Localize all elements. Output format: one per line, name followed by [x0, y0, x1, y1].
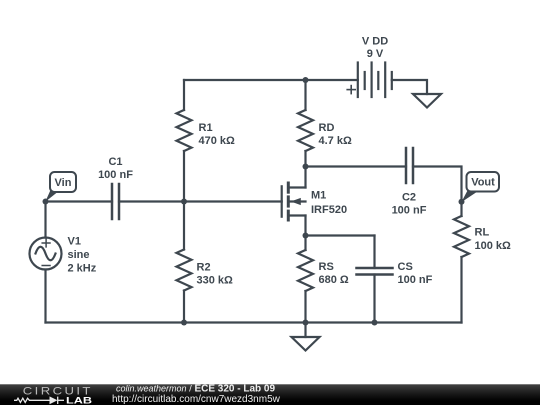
svg-text:LAB: LAB — [66, 395, 92, 405]
junction CS bottom rail — [372, 320, 378, 326]
svg-text:9 V: 9 V — [367, 48, 384, 60]
wire top rail — [184, 79, 358, 81]
svg-text:680 Ω: 680 Ω — [319, 274, 349, 286]
wire RL top — [460, 202, 462, 216]
label CS value — [398, 261, 433, 286]
svg-text:4.7 kΩ: 4.7 kΩ — [319, 135, 352, 147]
junction RS bottom rail — [303, 320, 309, 326]
resistor R1 — [177, 110, 192, 151]
label C1 value — [98, 156, 133, 181]
label R2 value — [197, 262, 234, 287]
svg-text:330 kΩ: 330 kΩ — [197, 275, 234, 287]
wire R2 top — [183, 202, 185, 250]
wire source node to CS — [306, 234, 375, 236]
wire RL bottom — [460, 257, 462, 323]
wire ground bottom stem — [304, 323, 306, 338]
wire R1 bottom to gate row — [183, 151, 185, 202]
svg-text:100 nF: 100 nF — [98, 169, 133, 181]
capacitor C1 — [112, 184, 119, 219]
wire bottom rail — [46, 321, 462, 323]
svg-text:RD: RD — [319, 122, 335, 134]
svg-text:100 nF: 100 nF — [398, 274, 433, 286]
wire C2 to Vout corner — [413, 167, 462, 203]
svg-text:RL: RL — [475, 227, 490, 239]
wire RS top — [304, 236, 306, 251]
footer bar — [0, 384, 540, 405]
svg-text:C1: C1 — [108, 156, 122, 168]
wire Vin node to C1 — [46, 200, 113, 202]
svg-text:C2: C2 — [402, 192, 416, 204]
wire CS top — [373, 236, 375, 269]
battery V DD — [347, 63, 392, 98]
label RL value — [475, 227, 512, 253]
junction R2 bottom rail — [181, 320, 187, 326]
junction source node — [303, 233, 309, 239]
resistor RL — [454, 216, 469, 257]
wire CS bottom — [373, 275, 375, 323]
wire RD bottom to drain node — [304, 151, 306, 167]
label M1 value — [311, 189, 347, 216]
wire V1 top — [44, 202, 46, 238]
ground top right — [413, 94, 441, 108]
source V1 — [30, 238, 62, 270]
resistor RD — [298, 110, 313, 151]
junction R1/R2/C1/gate node — [181, 199, 187, 205]
footer credit text — [112, 384, 281, 405]
svg-text:V DD: V DD — [362, 36, 388, 48]
wire R1 column top — [183, 80, 185, 110]
label C2 value — [392, 192, 427, 217]
svg-text:http://circuitlab.com/cnw7wezd: http://circuitlab.com/cnw7wezd3nm5w — [112, 394, 281, 405]
wire V1 bottom — [44, 270, 46, 323]
svg-text:CS: CS — [398, 261, 413, 273]
svg-text:IRF520: IRF520 — [311, 204, 347, 216]
svg-text:R1: R1 — [199, 122, 213, 134]
svg-text:2 kHz: 2 kHz — [68, 263, 97, 275]
svg-text:sine: sine — [68, 249, 90, 261]
svg-text:RS: RS — [319, 261, 334, 273]
junction Vin node — [43, 199, 49, 205]
svg-text:R2: R2 — [197, 262, 211, 274]
resistor RS — [298, 250, 313, 291]
capacitor C2 — [406, 148, 413, 183]
junction drain node — [303, 164, 309, 170]
svg-text:470 kΩ: 470 kΩ — [199, 135, 236, 147]
wire C1 to gate — [119, 200, 282, 202]
svg-text:Vin: Vin — [55, 177, 72, 189]
wire RD column top — [304, 80, 306, 110]
wire R2 bottom — [183, 291, 185, 323]
node Vout flag — [461, 172, 499, 202]
svg-text:Vout: Vout — [471, 177, 495, 189]
wire drain node to C2 — [306, 165, 407, 167]
label RS value — [319, 261, 349, 286]
label V1 value — [68, 236, 97, 275]
svg-text:V1: V1 — [68, 236, 81, 248]
label V DD value — [362, 36, 388, 60]
capacitor CS — [357, 268, 393, 275]
node Vin flag — [45, 172, 76, 202]
svg-text:M1: M1 — [311, 189, 326, 201]
junction Vout node — [459, 199, 465, 205]
ground bottom — [292, 337, 320, 351]
label RD value — [319, 122, 352, 147]
transistor M1 — [282, 167, 306, 236]
wire RS bottom — [304, 291, 306, 323]
resistor R2 — [177, 250, 192, 291]
label R1 value — [199, 122, 236, 147]
svg-text:100 kΩ: 100 kΩ — [475, 240, 512, 252]
logo CircuitLab — [14, 385, 93, 405]
svg-text:100 nF: 100 nF — [392, 205, 427, 217]
wire battery to ground — [392, 80, 427, 94]
junction VDD rail / RD — [303, 77, 309, 83]
